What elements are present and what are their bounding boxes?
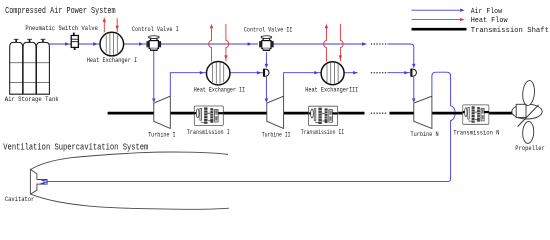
svg-text:Heat Flow: Heat Flow [471, 17, 508, 25]
svg-text:Air Flow: Air Flow [471, 8, 503, 16]
svg-text:Transmission Shaft: Transmission Shaft [471, 27, 549, 35]
svg-text:Transmission N: Transmission N [453, 129, 500, 136]
svg-text:Compressed Air Power System: Compressed Air Power System [5, 5, 116, 16]
svg-text:Transmission II: Transmission II [301, 129, 345, 136]
svg-text:Ventilation Supercavitation Sy: Ventilation Supercavitation System [3, 142, 148, 153]
svg-text:Heat ExchangerIII: Heat ExchangerIII [305, 86, 358, 93]
svg-text:Control Valve I: Control Valve I [132, 26, 179, 33]
svg-text:Heat Exchanger II: Heat Exchanger II [194, 86, 245, 93]
svg-text:Turbine I: Turbine I [148, 131, 176, 138]
svg-text:Turbine N: Turbine N [411, 131, 439, 138]
svg-text:Transmission I: Transmission I [187, 129, 230, 136]
svg-text:Propeller: Propeller [515, 145, 545, 152]
svg-text:Control Valve II: Control Valve II [244, 26, 293, 33]
svg-text:Air Storage Tank: Air Storage Tank [5, 96, 59, 103]
svg-text:Pneumatic Switch Valve: Pneumatic Switch Valve [25, 25, 98, 32]
svg-text:Turbine II: Turbine II [262, 131, 291, 138]
svg-text:Heat Exchanger I: Heat Exchanger I [87, 57, 138, 64]
svg-text:Cavitator: Cavitator [5, 196, 35, 203]
